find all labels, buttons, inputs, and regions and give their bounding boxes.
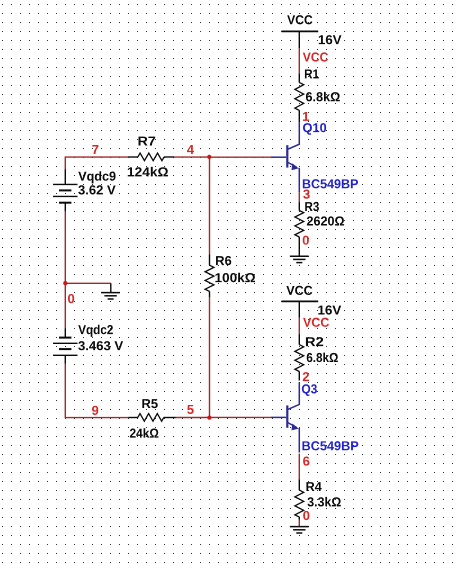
net label VCC (bottom, red) (303, 318, 329, 327)
wire battery Vqdc9 to node 0 (64, 211, 66, 283)
resistor R6 100k (205, 255, 255, 298)
resistor R5 24k (128, 399, 175, 437)
node 5 (187, 405, 194, 414)
node 0 (bottom right) (303, 511, 309, 520)
wire node 4 down (middle vertical upper) (209, 157, 211, 255)
wire R3 to ground (298, 237, 300, 256)
wire VCC to R2 (298, 318, 300, 335)
wire node 0 to ground (65, 282, 111, 284)
battery Vqdc2 (53, 325, 123, 364)
wire Q10 emitter to R3 (298, 192, 300, 202)
wire battery Vqdc2 to node 9 (65, 364, 128, 418)
value label 16V (top) (319, 35, 342, 44)
wire Q3 emitter to R4 (298, 454, 300, 480)
wire R5 to node 5 (176, 417, 210, 419)
transistor Q10 (271, 122, 358, 192)
resistor R4 3.3k (295, 480, 341, 520)
ground (bottom right) (290, 527, 309, 533)
node 7 (92, 145, 98, 154)
junction node 5 (207, 415, 211, 419)
node 6 (303, 456, 309, 465)
junction node 4 (207, 155, 211, 159)
wire node 4 to Q10 base (210, 156, 272, 158)
wire R6 down to node 5 (middle vertical lower) (209, 297, 211, 418)
wire R4 to ground (298, 519, 300, 526)
resistor R3 2620 (295, 202, 344, 237)
node 3 (303, 189, 310, 198)
wire node 0 to battery Vqdc2 (64, 283, 66, 328)
power symbol VCC (top) (282, 15, 319, 48)
resistor R2 6.8k (295, 334, 338, 380)
wire VCC to R1 (298, 48, 300, 73)
node 0 (top right) (303, 236, 309, 245)
battery Vqdc9 (53, 169, 116, 211)
net label VCC (top, red) (303, 52, 328, 61)
power symbol VCC (bottom) (282, 286, 319, 318)
wire node 7 (left top) (65, 157, 128, 169)
wire R7 to node 4 (174, 156, 210, 158)
resistor R1 6.8k (295, 69, 340, 122)
node 0 (left) (68, 294, 74, 303)
node 4 (187, 145, 194, 154)
ground (top right) (290, 256, 309, 262)
node 1 (303, 112, 309, 121)
wire node 5 to Q3 base (210, 416, 272, 418)
transistor Q3 (271, 382, 358, 452)
junction node 0 (63, 281, 67, 285)
value label 16V (bottom) (318, 305, 341, 314)
ground (left) (101, 283, 120, 299)
node 2 (303, 372, 309, 381)
resistor R7 124k (128, 137, 174, 177)
node 9 (92, 406, 98, 415)
